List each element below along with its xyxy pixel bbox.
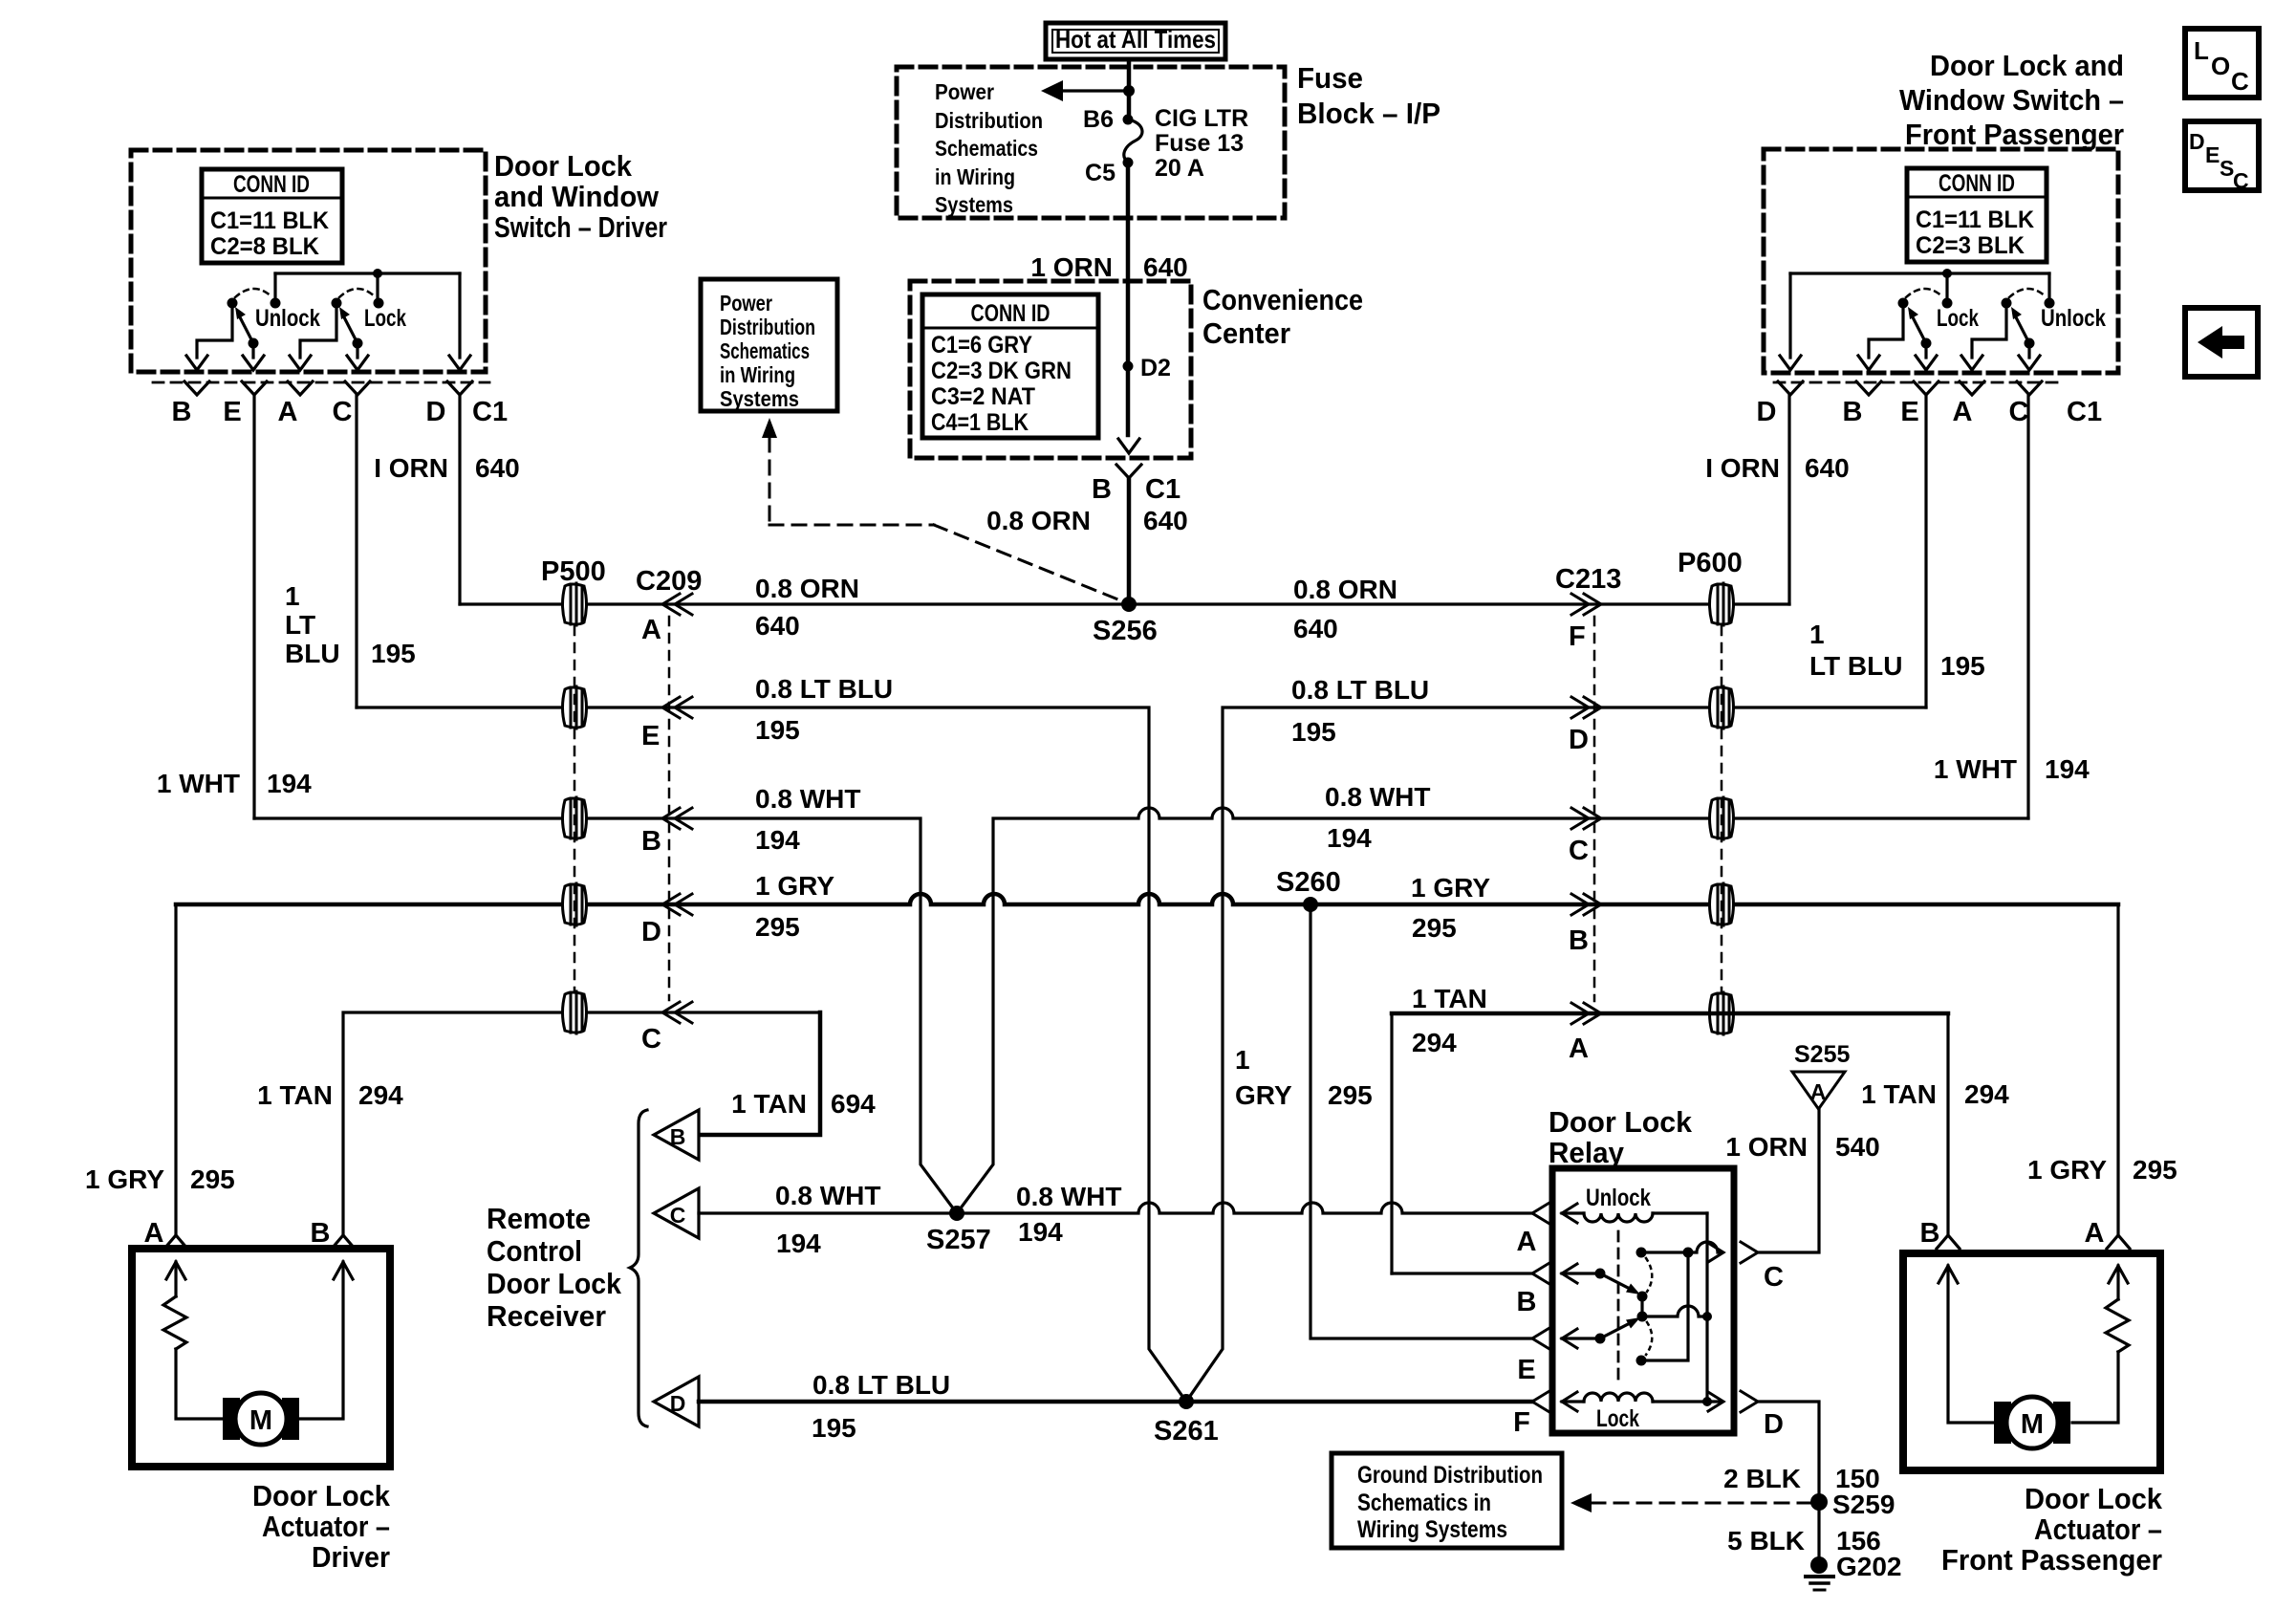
passenger actuator A branch with resistor <box>2072 1266 2129 1423</box>
svg-text:C2=3 DK GRN: C2=3 DK GRN <box>931 358 1072 384</box>
passenger lock switch <box>1898 289 1980 349</box>
C209 chevrons <box>662 594 692 1023</box>
svg-text:194: 194 <box>267 769 312 798</box>
svg-text:1 TAN: 1 TAN <box>1412 984 1487 1013</box>
svg-text:Schematics: Schematics <box>720 338 810 363</box>
wire row 0.8 LT BLU 195 receiver D to relay F <box>699 1400 1532 1404</box>
svg-text:C2=3 BLK: C2=3 BLK <box>1916 232 2025 259</box>
wire row 0.8 LT BLU 195 right segment <box>1186 707 1926 1402</box>
wire label 1 ORN 540 <box>1725 1132 1879 1162</box>
dashed reference arrow to ground distribution <box>1570 1493 1810 1512</box>
node C5 <box>1123 158 1134 168</box>
svg-text:B: B <box>670 1124 686 1149</box>
svg-text:C: C <box>2009 397 2029 427</box>
svg-text:0.8 WHT: 0.8 WHT <box>1325 782 1430 812</box>
driver unlock switch <box>227 289 321 349</box>
Convenience Center title <box>1202 283 1363 350</box>
svg-text:Driver: Driver <box>312 1540 390 1574</box>
svg-text:Front Passenger: Front Passenger <box>1905 118 2124 151</box>
P500 pass-through grommets <box>563 583 587 1033</box>
C213 connector dashed line <box>1593 617 1596 1001</box>
driver actuator motor M <box>223 1393 299 1445</box>
svg-text:640: 640 <box>755 611 800 641</box>
relay armature E <box>1532 1317 1640 1349</box>
svg-text:1 GRY: 1 GRY <box>1411 873 1490 903</box>
label 0.8 WHT 194 (C213 C) <box>1325 782 1430 853</box>
svg-text:I ORN: I ORN <box>374 453 448 483</box>
label 1 GRY 295 (C209 D) <box>755 871 834 942</box>
svg-text:0.8 ORN: 0.8 ORN <box>1293 575 1397 604</box>
driver unlock arm wire to pin E <box>251 343 254 358</box>
wire arrow to power distribution <box>1041 80 1135 101</box>
svg-text:A: A <box>1517 1227 1537 1257</box>
wire label 0.8 ORN 640 <box>986 506 1188 535</box>
svg-text:G202: G202 <box>1836 1552 1902 1581</box>
relay armature B <box>1532 1263 1640 1295</box>
svg-text:Distribution: Distribution <box>935 108 1043 133</box>
svg-text:Schematics: Schematics <box>935 136 1038 161</box>
svg-text:D: D <box>670 1391 686 1416</box>
svg-text:295: 295 <box>1328 1080 1373 1110</box>
svg-text:0.8 ORN: 0.8 ORN <box>986 506 1091 535</box>
svg-text:640: 640 <box>475 453 520 483</box>
svg-text:D: D <box>1764 1409 1784 1440</box>
fuse F13 element <box>1124 120 1142 163</box>
svg-text:B: B <box>311 1218 331 1249</box>
DESC nav box <box>2185 121 2259 193</box>
driver unlock wire to pin B <box>197 303 232 358</box>
wire driver actuator A drop (1 GRY 295) <box>174 904 177 1235</box>
connector B C1 chevron <box>1116 465 1141 478</box>
svg-text:in Wiring: in Wiring <box>935 164 1015 189</box>
svg-text:Remote: Remote <box>487 1202 591 1235</box>
svg-text:Relay: Relay <box>1549 1136 1625 1169</box>
Door Lock Actuator Front Passenger box <box>1903 1253 2160 1470</box>
label 0.8 WHT 194 (C209 B) <box>755 784 860 855</box>
driver pin letters B E A C D C1 <box>172 397 509 427</box>
svg-text:B6: B6 <box>1083 106 1114 133</box>
receiver pin B triangle <box>654 1110 699 1160</box>
C209 pin letters <box>641 615 661 1055</box>
label 1 GRY 295 (C213 B) <box>1411 873 1490 943</box>
svg-text:D: D <box>1757 397 1777 427</box>
svg-text:195: 195 <box>812 1413 856 1443</box>
driver lock wire to pin A <box>300 303 336 358</box>
relay lock coil row F <box>1532 1391 1758 1432</box>
wire passenger actuator A drop <box>2116 904 2119 1235</box>
wire label 1 ORN 640 <box>1030 252 1187 282</box>
fuse value label CIG LTR Fuse 13 20 A <box>1155 105 1248 182</box>
wire row 1 GRY 295 <box>176 894 2118 904</box>
Remote Control Door Lock Receiver brace <box>630 1110 647 1426</box>
P500 dashed line <box>574 626 576 990</box>
svg-text:640: 640 <box>1805 453 1850 483</box>
Hot at All Times box <box>1046 23 1225 59</box>
svg-text:Distribution: Distribution <box>720 315 815 339</box>
svg-text:5 BLK: 5 BLK <box>1727 1526 1805 1556</box>
receiver title <box>487 1202 622 1333</box>
svg-text:Control: Control <box>487 1234 582 1268</box>
svg-text:S255: S255 <box>1794 1041 1850 1068</box>
svg-text:1 GRY: 1 GRY <box>755 871 834 901</box>
svg-text:640: 640 <box>1143 252 1188 282</box>
svg-text:C: C <box>1569 836 1589 866</box>
svg-text:E: E <box>2205 142 2220 167</box>
driver lock switch <box>332 289 407 349</box>
svg-text:B: B <box>1920 1218 1940 1249</box>
svg-text:Ground Distribution: Ground Distribution <box>1357 1462 1543 1489</box>
node D2 <box>1123 355 1171 381</box>
svg-text:0.8 LT BLU: 0.8 LT BLU <box>812 1370 950 1400</box>
svg-text:L: L <box>2194 36 2209 65</box>
svg-text:A: A <box>1953 397 1973 427</box>
label 0.8 LT BLU 195 (C213 D) <box>1291 675 1429 747</box>
svg-text:295: 295 <box>2133 1155 2177 1185</box>
driver switch bus wire <box>275 269 460 303</box>
svg-text:E: E <box>641 721 660 751</box>
passenger switch bus wire <box>1790 269 2049 303</box>
svg-text:D: D <box>641 917 661 947</box>
svg-text:Center: Center <box>1202 316 1290 350</box>
svg-text:Actuator –: Actuator – <box>2034 1512 2162 1546</box>
svg-text:2 BLK: 2 BLK <box>1723 1464 1801 1493</box>
svg-text:CONN ID: CONN ID <box>233 171 310 198</box>
svg-text:195: 195 <box>1291 717 1336 747</box>
svg-text:A: A <box>278 397 298 427</box>
svg-text:CONN ID: CONN ID <box>971 300 1051 327</box>
svg-text:195: 195 <box>755 715 800 745</box>
svg-text:Front Passenger: Front Passenger <box>1941 1543 2162 1577</box>
relay contact dotted arcs <box>1646 1258 1652 1355</box>
svg-text:C: C <box>670 1203 686 1228</box>
wire row 1 TAN 294 (C213 A to relay B and actuator B) <box>1390 1013 1393 1273</box>
svg-text:Door Lock: Door Lock <box>252 1479 391 1512</box>
svg-text:C1=11 BLK: C1=11 BLK <box>210 207 329 234</box>
svg-text:C3=2 NAT: C3=2 NAT <box>931 383 1035 410</box>
driver switch wire to pin D <box>458 273 461 358</box>
label 1 TAN 294 (C213 A) <box>1412 984 1487 1057</box>
driver connector pin chevrons <box>184 381 472 395</box>
ground G202 <box>1806 1552 1902 1590</box>
svg-text:C: C <box>2233 168 2249 193</box>
svg-text:1 WHT: 1 WHT <box>157 769 240 798</box>
svg-text:Wiring Systems: Wiring Systems <box>1357 1516 1507 1543</box>
Power Distribution Schematics reference box <box>701 279 837 411</box>
label 0.8 LT BLU 195 (receiver D row) <box>812 1370 950 1443</box>
relay unlock coil return vertical <box>1705 1213 1708 1402</box>
svg-text:Convenience: Convenience <box>1202 283 1363 316</box>
passenger switch title <box>1899 49 2124 151</box>
passenger lock wire to pin B <box>1869 303 1903 358</box>
svg-text:294: 294 <box>358 1080 403 1110</box>
wire row 0.8 WHT 194 left segment <box>254 818 957 1213</box>
svg-text:Power: Power <box>935 79 994 104</box>
svg-text:LT BLU: LT BLU <box>1809 651 1902 681</box>
svg-text:Lock: Lock <box>364 305 406 332</box>
CONN ID table (passenger switch) <box>1907 168 2047 262</box>
svg-text:S260: S260 <box>1276 867 1341 898</box>
svg-text:B: B <box>1517 1287 1537 1317</box>
relay mechanical link dashed <box>1617 1231 1620 1386</box>
svg-text:E: E <box>223 397 241 427</box>
svg-text:Fuse 13: Fuse 13 <box>1155 130 1244 157</box>
svg-text:540: 540 <box>1835 1132 1880 1162</box>
svg-text:D: D <box>1569 725 1589 755</box>
wire conv center to S256 <box>1127 478 1132 604</box>
svg-text:B: B <box>1092 474 1112 505</box>
dashed reference arrow to power distribution box <box>762 418 1120 600</box>
svg-text:F: F <box>1513 1407 1530 1438</box>
wire driver pin C down (1 LT BLU 195) <box>355 395 357 707</box>
wire label 1 TAN 294 driver <box>257 1080 403 1110</box>
wire relay B row <box>1392 1272 1532 1274</box>
svg-text:BLU: BLU <box>285 639 340 668</box>
svg-text:640: 640 <box>1143 506 1188 535</box>
passenger actuator pin chevrons <box>1920 1218 2130 1249</box>
svg-text:C1=6 GRY: C1=6 GRY <box>931 332 1032 359</box>
svg-text:and Window: and Window <box>494 180 660 213</box>
driver connector C1 dashed line <box>153 381 489 384</box>
svg-text:Switch – Driver: Switch – Driver <box>494 210 667 244</box>
receiver pin C triangle <box>654 1188 699 1238</box>
driver actuator A branch with resistor <box>163 1262 223 1419</box>
splice S256 <box>1093 597 1158 646</box>
driver actuator B branch <box>299 1262 353 1419</box>
label 0.8 LT BLU 195 (C209 E) <box>755 674 893 745</box>
Convenience Center dashed box <box>910 281 1191 458</box>
svg-text:1 GRY: 1 GRY <box>85 1164 164 1194</box>
passenger actuator B branch <box>1939 1266 1994 1423</box>
svg-text:0.8 ORN: 0.8 ORN <box>755 574 859 603</box>
svg-text:M: M <box>2021 1409 2044 1440</box>
svg-text:1: 1 <box>1235 1045 1250 1075</box>
wire passenger pin E down (1 LT BLU 195) <box>1924 395 1927 707</box>
CONN ID table (driver switch) <box>202 169 342 263</box>
wire passenger pin D down (I ORN 640) <box>1787 395 1790 604</box>
svg-text:M: M <box>249 1405 272 1436</box>
CONN ID table (convenience center) <box>922 294 1098 438</box>
wire row 0.8 ORN 640 (C209 A row) <box>460 602 1129 605</box>
Ground Distribution reference box <box>1332 1453 1562 1548</box>
svg-text:C: C <box>333 397 353 427</box>
svg-text:C1=11 BLK: C1=11 BLK <box>1916 207 2034 233</box>
svg-text:P600: P600 <box>1678 548 1743 578</box>
wire driver pin D down (I ORN 640) <box>458 395 461 604</box>
svg-text:Receiver: Receiver <box>487 1299 606 1333</box>
label 0.8 WHT 194 (right of S257) <box>1016 1182 1121 1247</box>
passenger unlock wire to pin A <box>1972 303 2006 358</box>
svg-text:GRY: GRY <box>1235 1080 1292 1110</box>
C213 chevrons <box>1571 594 1601 1024</box>
splice S257 <box>926 1206 991 1255</box>
svg-text:LT: LT <box>285 610 315 640</box>
svg-text:P500: P500 <box>541 556 606 587</box>
driver actuator title <box>252 1479 391 1574</box>
wire label 1 TAN 294 (passenger actuator B) <box>1861 1079 2009 1109</box>
relay C contact row <box>1636 1242 1759 1263</box>
svg-text:194: 194 <box>755 825 800 855</box>
svg-text:D: D <box>2189 129 2205 154</box>
svg-text:1 TAN: 1 TAN <box>731 1089 807 1119</box>
passenger pin letters D B E A C C1 <box>1757 397 2103 427</box>
svg-text:0.8 LT BLU: 0.8 LT BLU <box>1291 675 1429 705</box>
label 0.8 WHT 194 (left of S257) <box>775 1181 880 1258</box>
svg-text:B: B <box>641 826 661 857</box>
svg-text:B: B <box>172 397 192 427</box>
svg-text:195: 195 <box>371 639 416 668</box>
svg-text:1: 1 <box>1809 620 1825 649</box>
svg-text:Unlock: Unlock <box>255 305 320 332</box>
wire passenger pin C down (1 WHT 194) <box>2026 395 2029 818</box>
wire row 0.8 WHT 194 receiver C to relay A <box>699 1203 1532 1213</box>
node B6 <box>1123 115 1134 125</box>
wire driver pin E down (1 WHT 194) <box>252 395 255 818</box>
svg-text:C209: C209 <box>636 566 702 597</box>
svg-text:Schematics in: Schematics in <box>1357 1490 1491 1516</box>
svg-text:C213: C213 <box>1555 564 1621 595</box>
svg-text:S259: S259 <box>1832 1490 1895 1519</box>
passenger switch wire to pin D <box>1788 273 1791 358</box>
svg-text:CIG LTR: CIG LTR <box>1155 105 1248 132</box>
svg-text:Systems: Systems <box>720 386 799 411</box>
svg-text:C: C <box>1764 1262 1784 1293</box>
svg-text:294: 294 <box>1412 1028 1457 1057</box>
svg-text:Block – I/P: Block – I/P <box>1297 97 1440 130</box>
power distribution note text (fuse block) <box>935 79 1043 217</box>
svg-text:1 TAN: 1 TAN <box>1861 1079 1937 1109</box>
wire relay C to S255 <box>1758 1109 1819 1252</box>
svg-text:C1: C1 <box>472 397 508 427</box>
svg-text:Door Lock and: Door Lock and <box>1930 49 2124 82</box>
splice S261 <box>1154 1394 1219 1447</box>
wire S260 drop to relay E <box>1310 904 1532 1338</box>
C213 pin letters <box>1569 621 1589 1064</box>
svg-text:Unlock: Unlock <box>2041 305 2106 332</box>
wire row 0.8 WHT 194 right segment <box>957 808 2028 1213</box>
LOC nav box <box>2185 29 2259 98</box>
svg-text:1 WHT: 1 WHT <box>1934 754 2017 784</box>
svg-text:B: B <box>1843 397 1863 427</box>
svg-text:194: 194 <box>2045 754 2090 784</box>
svg-text:B: B <box>1569 925 1589 956</box>
svg-text:640: 640 <box>1293 614 1338 643</box>
wire row 0.8 ORN 640 right (to C213 F) <box>1129 602 1789 605</box>
label 0.8 ORN 640 (C209 A) <box>755 574 859 641</box>
svg-text:E: E <box>1900 397 1918 427</box>
svg-text:E: E <box>1517 1355 1535 1385</box>
svg-text:C1: C1 <box>2067 397 2102 427</box>
receiver pin D triangle <box>654 1377 699 1426</box>
svg-text:194: 194 <box>776 1229 821 1258</box>
svg-text:Lock: Lock <box>1937 305 1979 332</box>
svg-text:S256: S256 <box>1093 616 1158 646</box>
svg-text:0.8 LT BLU: 0.8 LT BLU <box>755 674 893 704</box>
wire fuse C5 down to convenience center <box>1126 163 1131 435</box>
svg-text:295: 295 <box>190 1164 235 1194</box>
P600 pass-through grommets <box>1710 583 1734 1034</box>
splice marker S255 triangle A <box>1792 1041 1850 1109</box>
Fuse Block title <box>1297 61 1440 130</box>
svg-text:194: 194 <box>1327 823 1372 853</box>
svg-text:I ORN: I ORN <box>1705 453 1780 483</box>
svg-text:1: 1 <box>285 581 300 611</box>
svg-text:C: C <box>641 1024 661 1055</box>
svg-text:Door Lock: Door Lock <box>487 1267 622 1300</box>
driver actuator pin chevrons <box>144 1218 355 1249</box>
svg-text:Hot at All Times: Hot at All Times <box>1055 25 1216 54</box>
wire label 1 GRY 295 driver <box>85 1164 235 1194</box>
passenger connector pin chevrons <box>1778 381 2042 395</box>
svg-text:Fuse: Fuse <box>1297 61 1363 95</box>
svg-text:C: C <box>2231 67 2249 96</box>
svg-text:1 GRY: 1 GRY <box>2027 1155 2107 1185</box>
svg-text:Door Lock: Door Lock <box>1549 1105 1693 1139</box>
wire relay D to S259 and G202 <box>1758 1402 1819 1565</box>
svg-text:F: F <box>1569 621 1586 652</box>
passenger actuator motor M <box>1994 1397 2070 1448</box>
Door Lock Actuator Driver box <box>132 1249 390 1467</box>
wire label 1 GRY 295 (passenger actuator A) <box>2027 1155 2177 1185</box>
wire row 0.8 LT BLU 195 left segment <box>357 707 1186 1402</box>
Door Lock and Window Switch Driver dashed box <box>131 150 486 372</box>
svg-text:Door Lock: Door Lock <box>2025 1482 2163 1515</box>
wire label 2 BLK 150 <box>1723 1464 1880 1493</box>
svg-text:A: A <box>1810 1079 1827 1104</box>
svg-text:294: 294 <box>1964 1079 2009 1109</box>
svg-text:Actuator –: Actuator – <box>262 1510 390 1543</box>
svg-text:in Wiring: in Wiring <box>720 362 795 387</box>
passenger unlock arm wire to pin C <box>2027 343 2030 358</box>
back arrow nav box <box>2185 308 2258 377</box>
svg-text:295: 295 <box>1412 913 1457 943</box>
svg-text:Power: Power <box>720 291 772 315</box>
relay moving contact <box>1637 1292 1708 1322</box>
P600 dashed line <box>1721 626 1723 991</box>
svg-text:S261: S261 <box>1154 1416 1219 1447</box>
svg-text:1 ORN: 1 ORN <box>1030 252 1113 282</box>
passenger actuator title <box>1941 1482 2163 1577</box>
svg-text:1 TAN: 1 TAN <box>257 1080 333 1110</box>
svg-text:0.8 WHT: 0.8 WHT <box>775 1181 880 1210</box>
svg-text:20 A: 20 A <box>1155 155 1204 182</box>
relay unlock coil row A <box>1532 1185 1707 1224</box>
svg-text:195: 195 <box>1940 651 1985 681</box>
label 0.8 ORN 640 (C213 F) <box>1293 575 1397 643</box>
svg-text:Lock: Lock <box>1596 1405 1639 1432</box>
svg-text:C5: C5 <box>1085 160 1116 186</box>
svg-text:C4=1 BLK: C4=1 BLK <box>931 409 1029 436</box>
relay pin letters <box>1513 1227 1784 1440</box>
svg-text:694: 694 <box>831 1089 876 1119</box>
svg-text:A: A <box>1569 1033 1589 1064</box>
svg-text:D: D <box>426 397 446 427</box>
svg-text:A: A <box>641 615 661 645</box>
driver switch title <box>494 149 667 244</box>
splice S259 <box>1810 1490 1895 1519</box>
wire label 1 TAN 694 <box>731 1089 876 1119</box>
label 1 GRY 295 (S260 drop) <box>1235 1045 1373 1110</box>
svg-text:295: 295 <box>755 912 800 942</box>
wire row 1 TAN 294 driver (C209 C row) <box>343 1012 820 1235</box>
svg-text:O: O <box>2211 52 2230 80</box>
svg-text:C1: C1 <box>1145 474 1180 505</box>
svg-text:A: A <box>144 1218 164 1249</box>
driver lock arm wire to pin C <box>356 343 358 358</box>
relay lower fixed contact link <box>1641 1252 1688 1360</box>
svg-text:Window Switch –: Window Switch – <box>1899 83 2124 117</box>
Fuse Block dashed box <box>897 67 1285 218</box>
passenger connector C1 dashed line <box>1774 381 2061 384</box>
